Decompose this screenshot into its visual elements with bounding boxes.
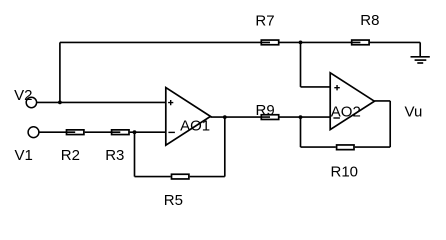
svg-text:R5: R5: [164, 192, 183, 209]
resistor R3: [112, 130, 129, 135]
resistor R5: [172, 174, 189, 179]
wire to AO2 noninverting input: [301, 86, 331, 88]
wire AO1 output to R9: [211, 116, 271, 118]
junction node at V2: [58, 101, 62, 105]
svg-text:R10: R10: [331, 163, 359, 180]
svg-text:R7: R7: [255, 12, 274, 29]
resistor R9: [261, 115, 278, 120]
svg-text:V1: V1: [15, 147, 33, 164]
op-amp AO1: [166, 88, 211, 146]
wire top rail down to AO2 noninverting input: [300, 42, 302, 87]
wire R3 to AO1 inverting input: [130, 131, 166, 133]
voltage source V2: [26, 97, 36, 107]
ground: [411, 42, 430, 63]
junction node after R3: [133, 130, 137, 134]
wire V2 to AO1 noninverting input: [37, 101, 166, 103]
wire R10 to output column: [355, 146, 390, 148]
wire AO2 inverting node down to feedback row: [300, 117, 302, 147]
wire feedback row to R5: [135, 176, 171, 178]
junction node at AO1 output: [223, 115, 227, 119]
resistor R2: [67, 130, 84, 135]
wire R2 to R3: [85, 131, 121, 133]
svg-text:R2: R2: [61, 147, 80, 164]
resistor R8: [352, 40, 369, 45]
junction node on top rail: [299, 41, 303, 45]
op-amp AO2: [330, 73, 374, 130]
svg-text:Vu: Vu: [405, 104, 423, 121]
wire AO2 output: [374, 100, 390, 102]
wire feedback up to AO1 output: [224, 117, 226, 177]
junction node at AO2 inverting input: [299, 115, 303, 119]
wire top rail right segment: [370, 41, 420, 43]
voltage source V1: [28, 127, 39, 138]
resistor R10: [337, 145, 354, 150]
svg-text:AO2: AO2: [331, 103, 361, 120]
wire feedback up to AO2 output: [389, 101, 391, 147]
wire top rail left segment: [60, 41, 270, 43]
wire V1 to R2: [39, 131, 75, 133]
wire junction down to feedback row: [134, 132, 136, 176]
svg-text:R9: R9: [256, 102, 275, 119]
svg-text:R3: R3: [105, 147, 124, 164]
wire top rail middle segment: [280, 41, 361, 43]
wire R5 to output column: [190, 176, 225, 178]
wire left vertical from top rail to V2 node: [59, 42, 61, 102]
wire R9 to AO2 inverting input: [279, 116, 330, 118]
svg-text:V2: V2: [14, 87, 32, 104]
wire feedback row to R10: [301, 146, 336, 148]
svg-text:R8: R8: [360, 12, 379, 29]
resistor R7: [261, 40, 278, 45]
svg-text:AO1: AO1: [180, 117, 210, 134]
